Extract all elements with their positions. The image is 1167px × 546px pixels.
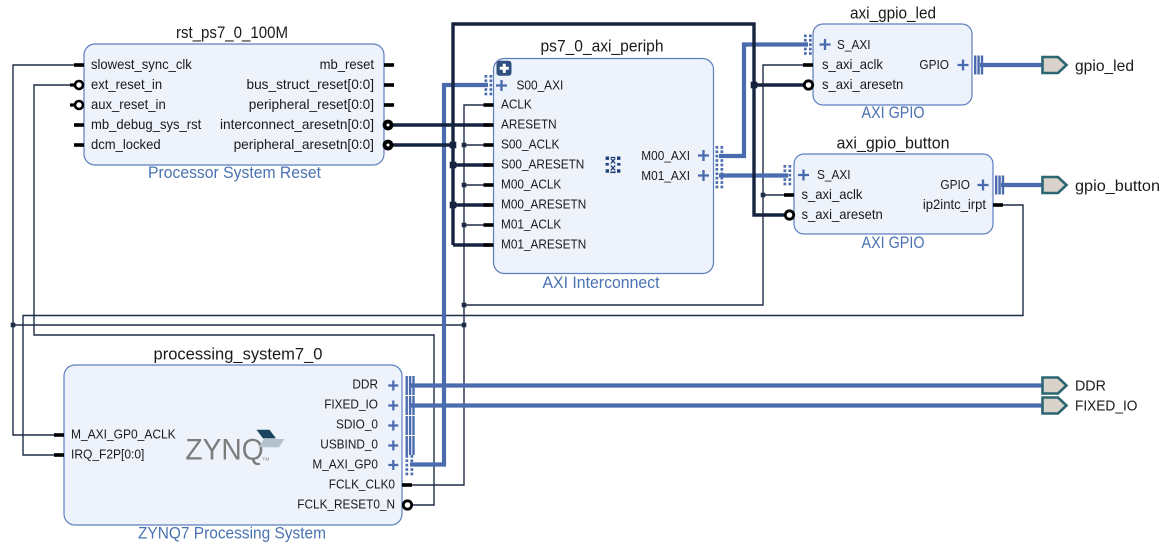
interface pin GPIO (button) (940, 177, 988, 192)
interface pin M00_AXI (641, 148, 709, 163)
svg-text:M01_AXI: M01_AXI (641, 168, 690, 183)
pin mb_debug_sys_rst (74, 123, 84, 127)
rst_ps7_0_100M right port labels (220, 57, 374, 152)
svg-text:S00_AXI: S00_AXI (517, 77, 564, 92)
svg-text:interconnect_aresetn[0:0]: interconnect_aresetn[0:0] (220, 116, 374, 132)
collapsed interface decoration M00_AXI (716, 146, 724, 166)
interface plus DDR (388, 381, 398, 391)
svg-text:M_AXI_GP0_ACLK: M_AXI_GP0_ACLK (71, 427, 176, 442)
pin interconnect_aresetn (active-low) (383, 120, 394, 131)
svg-text:M_AXI_GP0: M_AXI_GP0 (312, 457, 378, 472)
svg-text:axi_gpio_led: axi_gpio_led (850, 4, 936, 23)
block axi_gpio_button (AXI GPIO) (794, 134, 993, 253)
pin mb_reset (384, 63, 394, 67)
svg-text:s_axi_aresetn: s_axi_aresetn (802, 207, 883, 222)
svg-text:S00_ACLK: S00_ACLK (501, 137, 560, 152)
block ps7_0_axi_periph (AXI Interconnect) (494, 37, 714, 293)
bus wire M_AXI_GP0 to S00_AXI (410, 85, 488, 465)
svg-text:s_axi_aclk: s_axi_aclk (802, 187, 863, 202)
interface bars SDIO_0 (406, 416, 415, 435)
collapsed interface decoration M01_AXI (716, 168, 724, 188)
svg-text:gpio_led: gpio_led (1075, 58, 1134, 75)
svg-text:FIXED_IO: FIXED_IO (1075, 399, 1137, 415)
svg-text:axi_gpio_button: axi_gpio_button (837, 134, 950, 153)
interface plus FIXED_IO (388, 401, 398, 411)
pin FCLK_RESET0_N (active-low) (403, 501, 411, 509)
bus wire GPIO to gpio_led port (980, 63, 1044, 67)
svg-text:DDR: DDR (352, 377, 378, 392)
svg-text:ZYNQ: ZYNQ (185, 433, 263, 466)
svg-text:peripheral_aresetn[0:0]: peripheral_aresetn[0:0] (234, 136, 374, 152)
svg-text:AXI Interconnect: AXI Interconnect (543, 274, 660, 292)
svg-text:ACLK: ACLK (501, 97, 532, 112)
pin ip2intc_irpt label (923, 197, 986, 212)
interface plus USBIND_0 (388, 441, 398, 451)
pin bus_struct_reset (384, 83, 394, 87)
svg-text:TM: TM (262, 456, 269, 462)
svg-text:FIXED_IO: FIXED_IO (324, 397, 378, 412)
interface pin GPIO (led) (919, 57, 968, 72)
svg-text:mb_debug_sys_rst: mb_debug_sys_rst (91, 117, 202, 132)
interface plus SDIO_0 (388, 421, 398, 431)
interface bars DDR (406, 376, 415, 395)
bus wire M01_AXI to axi_gpio_button S_AXI (719, 173, 788, 177)
external port DDR (1043, 378, 1106, 395)
svg-text:M01_ARESETN: M01_ARESETN (501, 237, 586, 252)
collapsed interface decoration M_AXI_GP0 (406, 455, 414, 475)
ps7 left port labels (71, 427, 176, 462)
button port labels (802, 187, 883, 222)
interface bars FIXED_IO (406, 396, 415, 415)
block axi_gpio_led (AXI GPIO) (813, 4, 972, 123)
svg-text:bus_struct_reset[0:0]: bus_struct_reset[0:0] (247, 76, 375, 92)
led port labels (822, 57, 903, 92)
svg-text:S00_ARESETN: S00_ARESETN (501, 157, 584, 172)
svg-text:ps7_0_axi_periph: ps7_0_axi_periph (541, 37, 664, 56)
wire net ip2intc_irpt to IRQ_F2P (23, 205, 1023, 455)
svg-text:USBIND_0: USBIND_0 (320, 437, 378, 452)
ps7_0_axi_periph left port labels (501, 97, 586, 252)
svg-text:gpio_button: gpio_button (1075, 178, 1160, 195)
crossbar icon (606, 157, 621, 173)
bus wire DDR (410, 383, 1044, 387)
interface bars GPIO (led) (974, 56, 983, 75)
interface bars USBIND_0 (406, 436, 415, 455)
block rst_ps7_0_100M (Processor System Reset) (84, 23, 384, 182)
pins ACLK..M01_ARESETN (484, 103, 494, 247)
junctions FCLK_CLK0 net (11, 143, 766, 328)
svg-text:M00_ARESETN: M00_ARESETN (501, 197, 586, 212)
svg-text:s_axi_aresetn: s_axi_aresetn (822, 77, 903, 92)
pin FCLK_CLK0 (402, 483, 412, 487)
svg-text:processing_system7_0: processing_system7_0 (154, 345, 323, 364)
interface bars GPIO (button) (995, 176, 1004, 195)
svg-text:Processor System Reset: Processor System Reset (148, 164, 321, 182)
external port gpio_button (1043, 177, 1161, 195)
svg-text:FCLK_CLK0: FCLK_CLK0 (329, 477, 395, 492)
svg-text:S_AXI: S_AXI (837, 37, 871, 52)
interface pin S00_AXI (496, 77, 563, 92)
external port FIXED_IO (1043, 398, 1138, 415)
svg-text:GPIO: GPIO (940, 177, 970, 192)
wire net interconnect_aresetn (393, 123, 489, 126)
pin dcm_locked (74, 143, 84, 147)
bus wire FIXED_IO (410, 403, 1044, 407)
pin ext_reset_in (active-low) (70, 81, 83, 89)
expand box icon (497, 61, 512, 76)
pin s_axi_aclk (button) (784, 193, 794, 197)
pin peripheral_reset (384, 103, 394, 107)
pin ip2intc_irpt (993, 203, 1003, 207)
external port gpio_led (1043, 57, 1135, 75)
junctions peripheral_aresetn net (450, 82, 758, 209)
pin M_AXI_GP0_ACLK (54, 433, 64, 437)
bus wire M00_AXI to axi_gpio_led S_AXI (719, 45, 808, 157)
pin peripheral_aresetn (active-low) (383, 140, 394, 151)
svg-text:slowest_sync_clk: slowest_sync_clk (91, 57, 192, 72)
svg-text:dcm_locked: dcm_locked (91, 137, 161, 152)
ZYNQ logo (185, 430, 284, 467)
pin s_axi_aclk (led) (803, 63, 813, 67)
svg-text:aux_reset_in: aux_reset_in (91, 97, 166, 112)
wire net FCLK_RESET0_N to ext_reset_in (34, 85, 434, 505)
collapsed interface decoration S00_AXI (485, 75, 493, 95)
pin aux_reset_in (active-low) (70, 101, 83, 109)
svg-text:AXI GPIO: AXI GPIO (862, 234, 925, 252)
svg-text:SDIO_0: SDIO_0 (336, 417, 378, 432)
svg-text:peripheral_reset[0:0]: peripheral_reset[0:0] (249, 96, 374, 112)
pin slowest_sync_clk (74, 63, 84, 67)
svg-text:ext_reset_in: ext_reset_in (91, 77, 162, 92)
svg-text:GPIO: GPIO (919, 57, 949, 72)
svg-text:AXI GPIO: AXI GPIO (862, 104, 925, 122)
pin s_axi_aresetn (button, active-low) (785, 211, 793, 219)
interface pin M01_AXI (641, 168, 709, 183)
svg-text:M00_ACLK: M00_ACLK (501, 177, 561, 192)
pin s_axi_aresetn (led, active-low) (804, 81, 812, 89)
svg-text:rst_ps7_0_100M: rst_ps7_0_100M (176, 23, 288, 42)
svg-text:FCLK_RESET0_N: FCLK_RESET0_N (297, 497, 395, 512)
wire net peripheral_aresetn (393, 24, 805, 245)
interface plus M_AXI_GP0 (388, 460, 398, 470)
collapsed interface decoration S_AXI (led) (804, 35, 812, 55)
ps7 right port labels (297, 377, 395, 512)
interface pin S_AXI (led) (820, 37, 871, 52)
block processing_system7_0 (ZYNQ7 Processing System) (64, 345, 402, 543)
svg-text:ARESETN: ARESETN (501, 117, 557, 132)
bus wire GPIO to gpio_button port (1001, 183, 1044, 187)
svg-text:M00_AXI: M00_AXI (641, 148, 690, 163)
wire net FCLK_CLK0 (clock) (13, 65, 806, 485)
svg-text:s_axi_aclk: s_axi_aclk (822, 57, 883, 72)
svg-text:mb_reset: mb_reset (320, 57, 375, 72)
pin IRQ_F2P (54, 453, 64, 457)
svg-text:S_AXI: S_AXI (817, 167, 851, 182)
svg-text:IRQ_F2P[0:0]: IRQ_F2P[0:0] (71, 447, 144, 462)
rst_ps7_0_100M left port labels (91, 57, 202, 152)
svg-text:M01_ACLK: M01_ACLK (501, 217, 561, 232)
svg-text:ip2intc_irpt: ip2intc_irpt (923, 197, 986, 212)
svg-text:ZYNQ7 Processing System: ZYNQ7 Processing System (138, 525, 326, 543)
collapsed interface decoration S_AXI (button) (784, 165, 792, 185)
interface pin S_AXI (button) (798, 167, 851, 182)
svg-text:DDR: DDR (1075, 379, 1106, 395)
